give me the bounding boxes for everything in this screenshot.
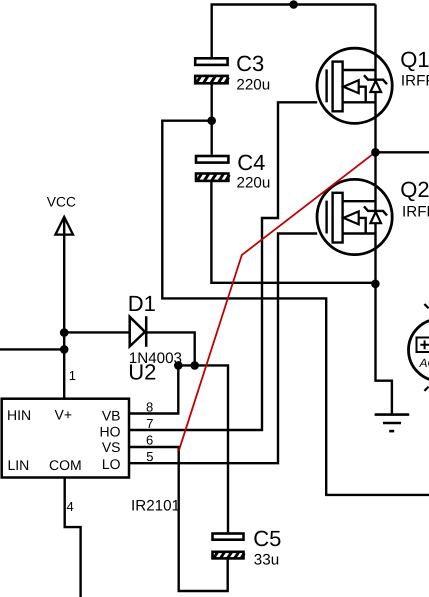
svg-text:IR2101: IR2101 bbox=[131, 498, 180, 515]
svg-text:LO: LO bbox=[102, 456, 121, 472]
svg-text:220u: 220u bbox=[236, 77, 270, 94]
svg-text:1N4003: 1N4003 bbox=[129, 350, 182, 367]
svg-text:V+: V+ bbox=[55, 407, 73, 423]
svg-text:COM: COM bbox=[49, 457, 82, 473]
svg-text:5: 5 bbox=[146, 449, 153, 464]
svg-text:220u: 220u bbox=[237, 174, 271, 191]
svg-text:C5: C5 bbox=[253, 526, 281, 551]
svg-text:VB: VB bbox=[102, 408, 121, 424]
svg-text:LIN: LIN bbox=[8, 457, 30, 473]
svg-text:4: 4 bbox=[67, 499, 74, 514]
svg-text:C4: C4 bbox=[237, 150, 265, 175]
svg-text:C3: C3 bbox=[236, 51, 264, 76]
svg-text:HO: HO bbox=[100, 423, 121, 439]
svg-text:IRFP250: IRFP250 bbox=[401, 73, 429, 90]
svg-text:8: 8 bbox=[146, 399, 153, 414]
svg-text:Q1: Q1 bbox=[400, 47, 429, 72]
svg-text:AC: AC bbox=[419, 356, 429, 370]
svg-text:VCC: VCC bbox=[47, 194, 76, 209]
svg-text:Q2: Q2 bbox=[400, 177, 429, 202]
svg-text:IRFP250: IRFP250 bbox=[402, 204, 429, 221]
svg-text:7: 7 bbox=[146, 416, 153, 431]
svg-text:VS: VS bbox=[102, 439, 121, 455]
svg-text:33u: 33u bbox=[254, 552, 279, 569]
svg-text:HIN: HIN bbox=[7, 407, 31, 423]
svg-text:D1: D1 bbox=[128, 291, 156, 316]
svg-text:6: 6 bbox=[146, 433, 153, 448]
svg-text:1: 1 bbox=[69, 368, 76, 383]
